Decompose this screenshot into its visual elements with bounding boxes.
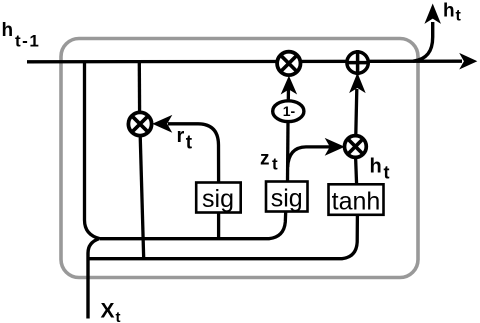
label h(t) top right output [443, 1, 462, 25]
label h(t) inner near update multiplier [370, 156, 390, 183]
wire sig1 bottom stub to bus A [217, 213, 220, 239]
wire h(t-1) main horizontal line [27, 60, 462, 64]
adder circle-plus [346, 50, 369, 75]
label z(t) [260, 149, 278, 174]
svg-text:t-1: t-1 [15, 32, 40, 51]
arrowhead up into top multiplier [282, 78, 295, 93]
oval 1- (one minus) [273, 101, 304, 122]
label h(t-1) top left [2, 20, 41, 51]
wire from update multiplier bottom to tanh [356, 158, 357, 185]
svg-text:t: t [272, 155, 278, 174]
label X(t) bottom input [101, 300, 121, 323]
svg-text:z: z [260, 149, 270, 170]
label r(t) [177, 125, 193, 154]
wire vertical drop from h line at x=139.5 to reset multiplier [138, 62, 142, 113]
wire h(t) output curve up from h line [413, 22, 433, 61]
wire z(t) vertical from sig2 output up to 1- oval [286, 122, 290, 182]
arrowhead up into adder [351, 75, 364, 92]
multiplier (top, h(t-1) x (1-z)) circle-X [277, 52, 300, 75]
wire bottom bus A (y=238.7) from jog to sig2 input curve [100, 212, 286, 239]
svg-text:r: r [177, 125, 185, 147]
multiplier (reset gate) circle-X [128, 112, 151, 135]
wire bottom bus B (y=258.7) from X(t) line to tanh input curve [88, 215, 357, 259]
svg-text:tanh: tanh [332, 187, 381, 215]
arrowhead into update multiplier [327, 140, 344, 155]
wire from update multiplier up to adder [356, 89, 357, 135]
wire z(t) branch curving right into update multiplier [288, 147, 330, 167]
svg-text:1-: 1- [283, 103, 296, 119]
box sig1 (reset gate sigmoid) [196, 183, 241, 214]
arrowhead into reset multiplier [154, 117, 171, 132]
box tanh (candidate activation) [329, 184, 384, 215]
svg-text:h: h [443, 1, 455, 22]
cell border (rounded rectangle) [61, 39, 418, 278]
svg-text:X: X [101, 300, 115, 323]
wire S-jog continuation down to X(t) [88, 239, 99, 319]
svg-text:sig: sig [202, 185, 234, 213]
wire vertical drop from h line at x=84.5 down with S-jog [85, 62, 101, 239]
arrowhead right end of h line [461, 55, 476, 68]
svg-text:t: t [384, 163, 390, 183]
wire from reset multiplier bottom down to bus B [140, 136, 144, 259]
box sig2 (update gate sigmoid) [266, 182, 308, 213]
svg-text:t: t [116, 309, 121, 323]
arrowhead h(t) up [426, 6, 439, 23]
multiplier (update gate) circle-X [345, 136, 367, 158]
svg-text:sig: sig [271, 184, 303, 212]
wire from 1- oval top up toward top multiplier [287, 86, 291, 101]
svg-text:t: t [186, 133, 193, 154]
svg-text:h: h [2, 20, 14, 41]
svg-text:t: t [456, 8, 462, 25]
svg-text:h: h [370, 156, 382, 178]
wire r(t) path from sig1 output up and left into reset multiplier [168, 124, 219, 183]
